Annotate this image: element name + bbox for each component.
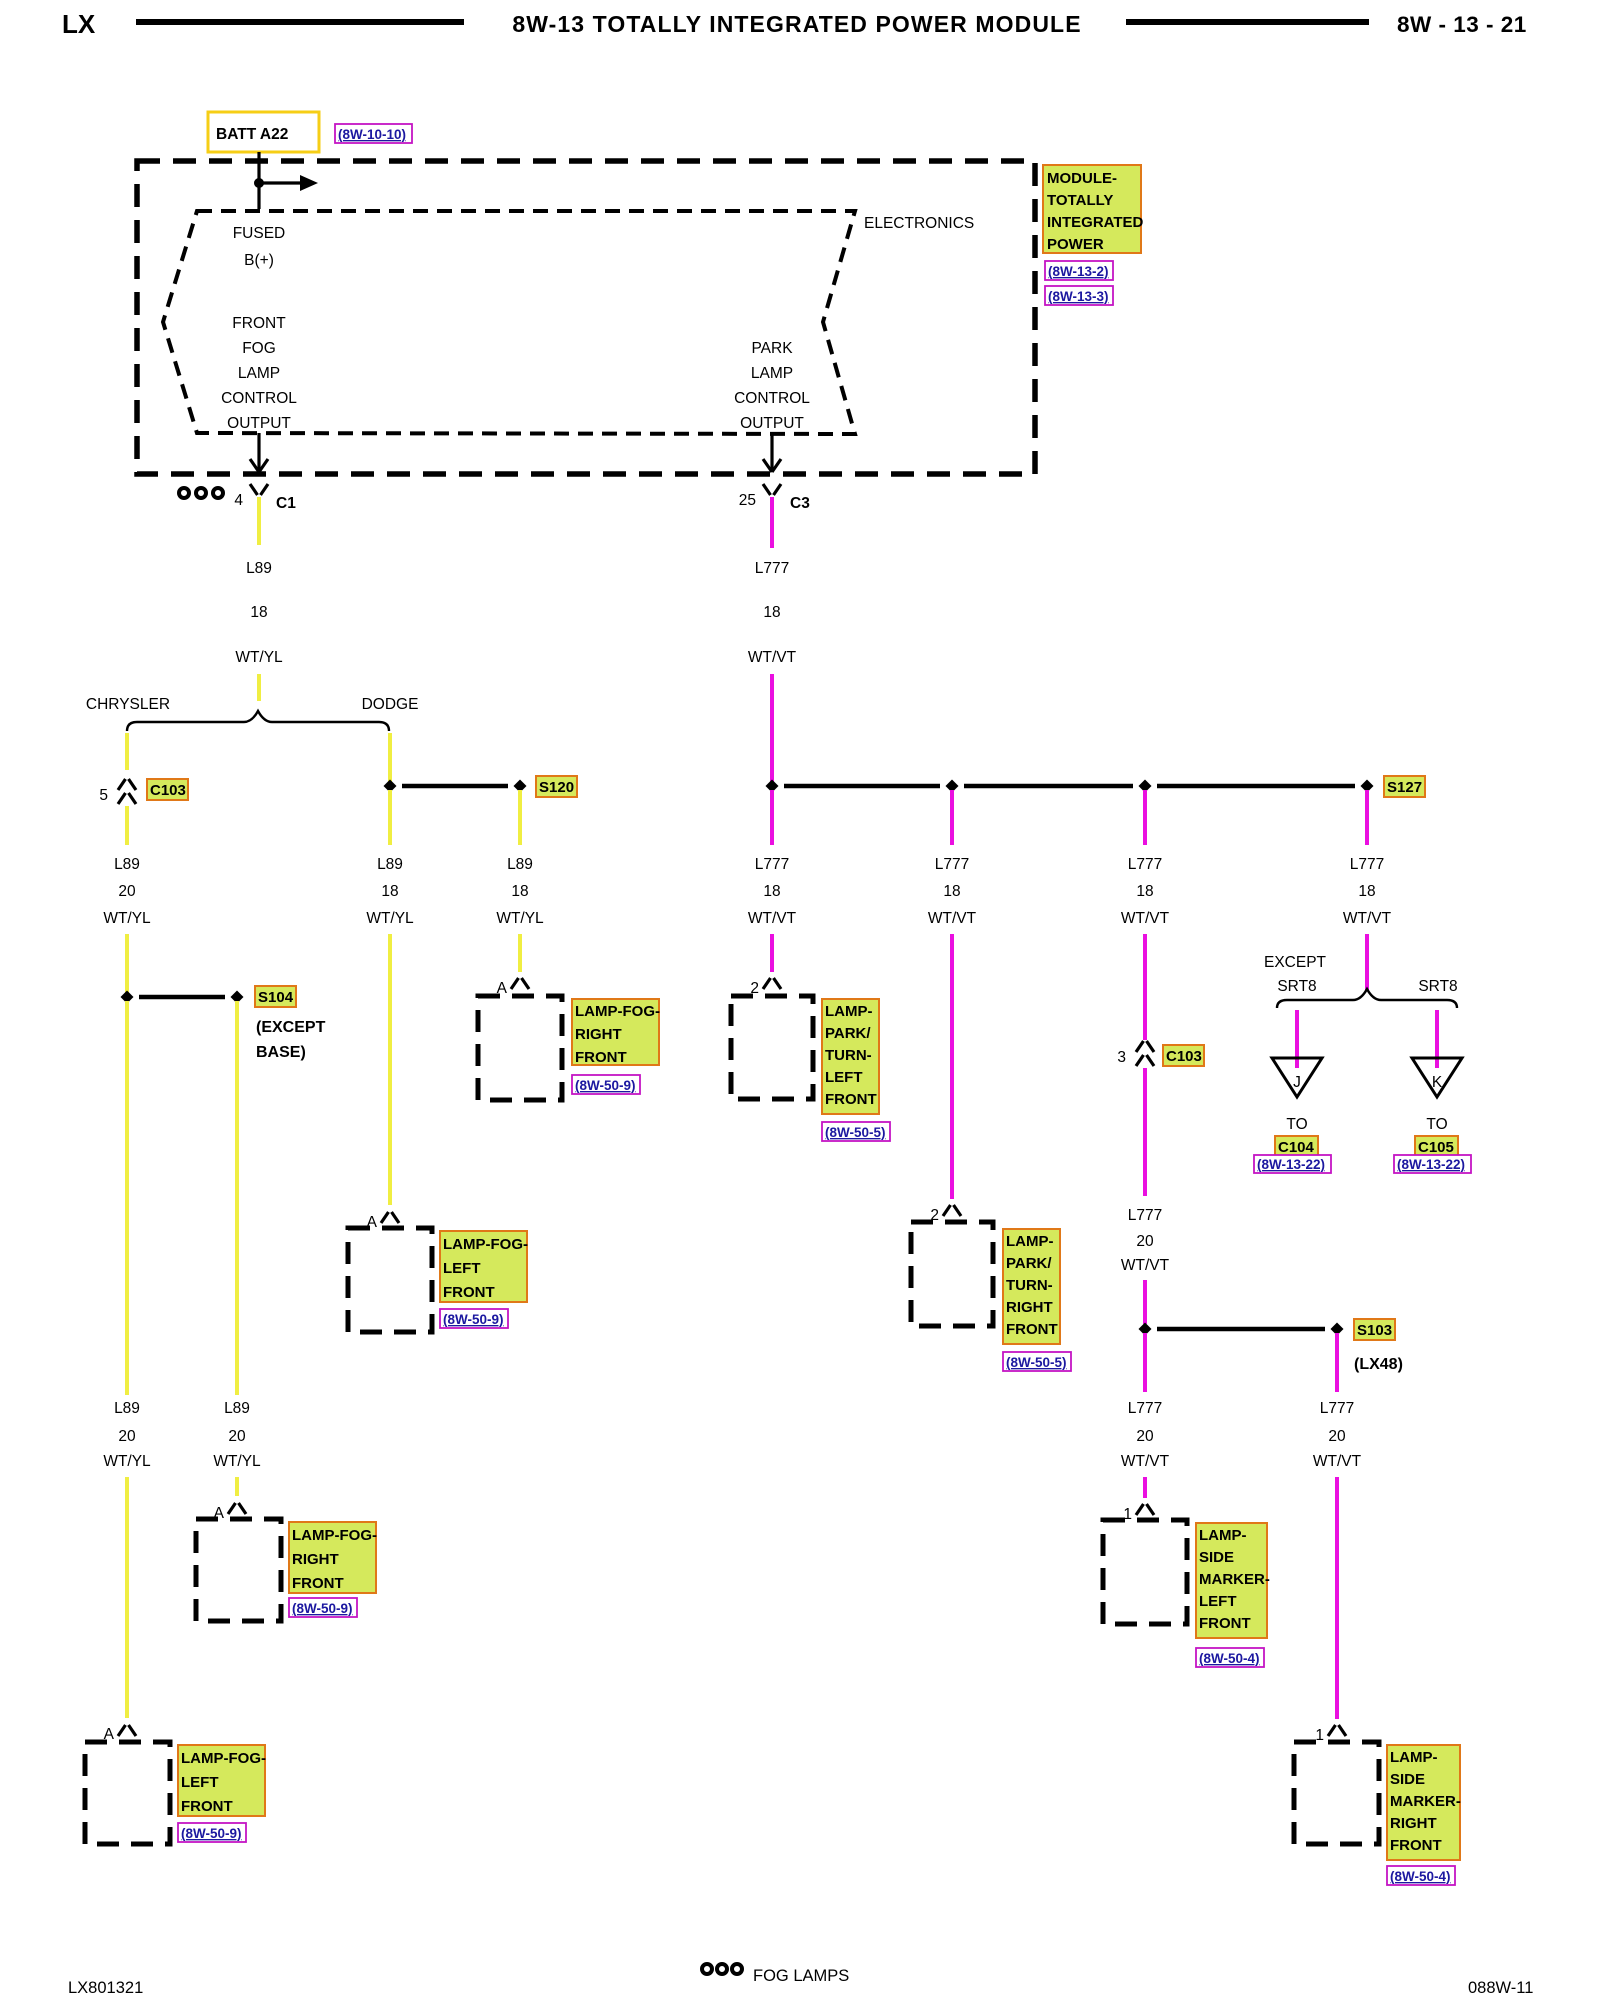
lamp LAMP-PARK/TURN-RIGHT FRONT — [911, 1222, 993, 1326]
svg-text:FOG: FOG — [242, 340, 276, 357]
link 8W-10-10 — [335, 124, 412, 143]
svg-text:LAMP: LAMP — [238, 365, 280, 382]
svg-text:WT/YL: WT/YL — [496, 910, 544, 927]
link 8W-50-9 — [289, 1598, 357, 1617]
arrow front fog output — [257, 433, 260, 470]
link 8W-13-3 — [1045, 286, 1113, 305]
svg-text:WT/VT: WT/VT — [928, 910, 977, 927]
svg-text:LAMP-FOG-: LAMP-FOG- — [181, 1750, 266, 1767]
svg-text:20: 20 — [118, 883, 136, 900]
svg-text:WT/VT: WT/VT — [1313, 1453, 1362, 1470]
lamp LAMP-SIDE MARKER-LEFT FRONT — [1103, 1520, 1187, 1624]
svg-text:SRT8: SRT8 — [1277, 978, 1316, 995]
wire col2 L777 18 WT/VT — [950, 790, 954, 845]
link 8W-50-4 — [1387, 1866, 1455, 1885]
svg-text:L89: L89 — [246, 560, 272, 577]
svg-text:BATT A22: BATT A22 — [216, 126, 288, 143]
svg-text:C3: C3 — [790, 495, 810, 512]
svg-text:5: 5 — [99, 787, 108, 804]
svg-text:FRONT: FRONT — [292, 1575, 344, 1592]
svg-text:TO: TO — [1426, 1116, 1447, 1133]
svg-text:MODULE-: MODULE- — [1047, 170, 1117, 187]
svg-text:WT/VT: WT/VT — [1121, 910, 1170, 927]
svg-text:LX801321: LX801321 — [68, 1979, 143, 1997]
svg-text:LAMP-FOG-: LAMP-FOG- — [443, 1236, 528, 1253]
svg-text:WT/YL: WT/YL — [366, 910, 414, 927]
svg-text:C104: C104 — [1278, 1139, 1315, 1156]
svg-text:OUTPUT: OUTPUT — [740, 415, 804, 432]
svg-text:20: 20 — [1136, 1233, 1154, 1250]
splice S127 — [784, 784, 940, 789]
svg-text:LEFT: LEFT — [825, 1069, 863, 1086]
svg-text:FOG LAMPS: FOG LAMPS — [753, 1967, 849, 1985]
svg-text:(8W-50-5): (8W-50-5) — [825, 1125, 886, 1140]
link 8W-13-22 — [1254, 1155, 1331, 1173]
svg-text:K: K — [1432, 1074, 1443, 1091]
svg-text:(8W-10-10): (8W-10-10) — [338, 127, 406, 142]
link 8W-50-9 — [572, 1075, 640, 1094]
header rule left — [136, 19, 464, 25]
svg-text:LAMP-: LAMP- — [1006, 1233, 1054, 1250]
header rule right — [1126, 19, 1369, 25]
connector chevron lamp fog left front — [118, 1725, 136, 1736]
connector chevron park/turn left — [763, 978, 781, 989]
svg-text:LAMP-: LAMP- — [1390, 1749, 1438, 1766]
svg-text:L777: L777 — [755, 560, 789, 577]
footer connector indicator — [702, 1964, 712, 1974]
svg-text:L777: L777 — [1128, 1400, 1162, 1417]
svg-text:088W-11: 088W-11 — [1468, 1979, 1533, 1997]
svg-text:WT/VT: WT/VT — [1343, 910, 1392, 927]
svg-text:20: 20 — [228, 1428, 246, 1445]
svg-text:FRONT: FRONT — [1006, 1321, 1058, 1338]
svg-text:PARK: PARK — [751, 340, 793, 357]
lamp LAMP-FOG-RIGHT FRONT (dodge) — [478, 996, 562, 1100]
svg-text:TOTALLY: TOTALLY — [1047, 192, 1113, 209]
svg-text:18: 18 — [943, 883, 960, 900]
svg-text:LEFT: LEFT — [443, 1260, 481, 1277]
svg-text:LAMP-: LAMP- — [1199, 1527, 1247, 1544]
svg-text:(8W-13-2): (8W-13-2) — [1048, 264, 1109, 279]
svg-text:FRONT: FRONT — [232, 315, 286, 332]
svg-text:LAMP-FOG-: LAMP-FOG- — [575, 1003, 660, 1020]
svg-text:SRT8: SRT8 — [1418, 978, 1457, 995]
svg-text:WT/YL: WT/YL — [213, 1453, 261, 1470]
svg-text:S127: S127 — [1387, 779, 1422, 796]
module label MODULE-TOTALLY INTEGRATED POWER — [1043, 165, 1141, 253]
svg-text:(8W-13-3): (8W-13-3) — [1048, 289, 1109, 304]
wire col3 L777 18 WT/VT — [1143, 790, 1147, 845]
svg-text:TURN-: TURN- — [825, 1047, 872, 1064]
lamp LAMP-FOG-LEFT FRONT (dodge) — [348, 1228, 432, 1332]
svg-text:B(+): B(+) — [244, 252, 274, 269]
svg-text:SIDE: SIDE — [1390, 1771, 1425, 1788]
svg-text:(8W-50-5): (8W-50-5) — [1006, 1355, 1067, 1370]
module inner connector cavity outline — [163, 211, 855, 434]
svg-text:18: 18 — [763, 604, 780, 621]
svg-text:20: 20 — [118, 1428, 136, 1445]
arrow park lamp output — [770, 433, 773, 470]
link 8W-13-22 — [1394, 1155, 1471, 1173]
svg-text:8W-13 TOTALLY INTEGRATED POWER: 8W-13 TOTALLY INTEGRATED POWER MODULE — [512, 11, 1081, 37]
wire L777 18 WT/VT from C3 — [770, 497, 774, 548]
wire col1 L777 18 WT/VT — [770, 790, 774, 845]
connector chevron lamp fog right front — [228, 1503, 246, 1514]
wire to K — [1435, 1010, 1439, 1068]
svg-text:INTEGRATED: INTEGRATED — [1047, 214, 1144, 231]
svg-text:LEFT: LEFT — [181, 1774, 219, 1791]
svg-text:18: 18 — [1358, 883, 1375, 900]
link 8W-50-5 — [1003, 1352, 1071, 1371]
lamp LAMP-FOG-LEFT FRONT (chrysler) — [85, 1742, 170, 1844]
svg-text:S103: S103 — [1357, 1322, 1392, 1339]
off-page connector K — [1412, 1058, 1462, 1097]
svg-text:L777: L777 — [1320, 1400, 1354, 1417]
svg-text:CONTROL: CONTROL — [221, 390, 297, 407]
svg-text:MARKER-: MARKER- — [1390, 1793, 1461, 1810]
wire col4 L777 18 WT/VT — [1365, 790, 1369, 845]
link 8W-50-9 — [440, 1309, 508, 1328]
svg-text:FRONT: FRONT — [443, 1284, 495, 1301]
svg-text:S120: S120 — [539, 779, 574, 796]
svg-text:RIGHT: RIGHT — [292, 1551, 339, 1568]
svg-text:4: 4 — [234, 492, 243, 509]
svg-text:FRONT: FRONT — [825, 1091, 877, 1108]
svg-text:FRONT: FRONT — [575, 1049, 627, 1066]
svg-text:PARK/: PARK/ — [1006, 1255, 1052, 1272]
module TIPM outer dashed box — [137, 161, 1035, 474]
svg-text:FRONT: FRONT — [181, 1798, 233, 1815]
svg-text:C103: C103 — [1166, 1048, 1202, 1065]
svg-text:LAMP-: LAMP- — [825, 1003, 873, 1020]
svg-text:LEFT: LEFT — [1199, 1593, 1237, 1610]
wire battery feed — [257, 152, 260, 209]
fuse box BATT A22 — [208, 112, 319, 152]
svg-text:WT/YL: WT/YL — [103, 910, 151, 927]
splice S120 — [402, 784, 508, 789]
svg-text:L89: L89 — [377, 856, 403, 873]
connector C1 — [250, 484, 268, 495]
svg-text:FUSED: FUSED — [233, 225, 286, 242]
svg-text:POWER: POWER — [1047, 236, 1104, 253]
splice S103 — [1157, 1327, 1325, 1332]
svg-text:25: 25 — [739, 492, 756, 509]
wire S104 left leg — [125, 1001, 129, 1395]
link 8W-50-4 — [1196, 1648, 1264, 1667]
wire S104 right leg — [235, 1001, 239, 1395]
svg-text:DODGE: DODGE — [362, 696, 419, 713]
svg-text:RIGHT: RIGHT — [575, 1026, 622, 1043]
wire S103 left leg L777 20 WT/VT — [1143, 1333, 1147, 1392]
svg-text:RIGHT: RIGHT — [1390, 1815, 1437, 1832]
wire S120 left leg L89 18 WT/YL — [388, 790, 392, 845]
svg-text:(8W-50-9): (8W-50-9) — [292, 1601, 353, 1616]
connector C1 in-line indicator — [179, 488, 189, 498]
svg-text:L777: L777 — [935, 856, 969, 873]
svg-text:18: 18 — [511, 883, 528, 900]
svg-text:TURN-: TURN- — [1006, 1277, 1053, 1294]
wire L89 18 WT/YL from C1 — [257, 497, 261, 545]
wire chrysler branch — [125, 733, 129, 770]
svg-text:(8W-50-9): (8W-50-9) — [443, 1312, 504, 1327]
svg-text:L89: L89 — [224, 1400, 250, 1417]
svg-text:CHRYSLER: CHRYSLER — [86, 696, 170, 713]
svg-text:(8W-13-22): (8W-13-22) — [1257, 1157, 1325, 1172]
svg-text:WT/VT: WT/VT — [1121, 1257, 1170, 1274]
off-page connector J — [1272, 1058, 1322, 1097]
svg-text:OUTPUT: OUTPUT — [227, 415, 291, 432]
svg-text:WT/VT: WT/VT — [748, 910, 797, 927]
lamp LAMP-FOG-RIGHT FRONT (chrysler) — [196, 1519, 281, 1621]
svg-text:WT/VT: WT/VT — [748, 649, 797, 666]
svg-text:18: 18 — [250, 604, 267, 621]
svg-text:LAMP: LAMP — [751, 365, 793, 382]
svg-text:ELECTRONICS: ELECTRONICS — [864, 215, 974, 232]
connector chevron lamp fog left front dodge — [381, 1212, 399, 1223]
svg-text:FRONT: FRONT — [1199, 1615, 1251, 1632]
svg-text:20: 20 — [1136, 1428, 1154, 1445]
svg-text:(8W-50-4): (8W-50-4) — [1199, 1651, 1260, 1666]
link 8W-13-2 — [1045, 261, 1113, 280]
svg-text:BASE): BASE) — [256, 1044, 306, 1061]
svg-text:RIGHT: RIGHT — [1006, 1299, 1053, 1316]
splice S104 — [139, 995, 225, 1000]
svg-text:(8W-50-9): (8W-50-9) — [181, 1826, 242, 1841]
link 8W-50-5 — [822, 1122, 890, 1141]
connector C103 left — [118, 779, 136, 804]
svg-text:LAMP-FOG-: LAMP-FOG- — [292, 1527, 377, 1544]
svg-text:CONTROL: CONTROL — [734, 390, 810, 407]
svg-text:WT/VT: WT/VT — [1121, 1453, 1170, 1470]
lamp LAMP-SIDE MARKER-RIGHT FRONT — [1294, 1742, 1379, 1844]
lamp LAMP-PARK/TURN-LEFT FRONT — [731, 996, 813, 1099]
svg-text:18: 18 — [763, 883, 780, 900]
svg-text:3: 3 — [1117, 1049, 1126, 1066]
svg-text:L777: L777 — [1128, 1207, 1162, 1224]
brace chrysler/dodge split — [127, 711, 389, 731]
svg-text:L777: L777 — [1128, 856, 1162, 873]
wire dodge branch — [388, 733, 392, 782]
brace srt8 split — [1277, 989, 1457, 1008]
svg-text:(8W-13-22): (8W-13-22) — [1397, 1157, 1465, 1172]
svg-text:L89: L89 — [507, 856, 533, 873]
connector chevron park/turn right — [943, 1205, 961, 1216]
svg-text:C1: C1 — [276, 495, 296, 512]
svg-text:FRONT: FRONT — [1390, 1837, 1442, 1854]
svg-text:WT/YL: WT/YL — [235, 649, 283, 666]
svg-text:MARKER-: MARKER- — [1199, 1571, 1270, 1588]
svg-text:L89: L89 — [114, 856, 140, 873]
svg-text:(8W-50-9): (8W-50-9) — [575, 1078, 636, 1093]
svg-text:PARK/: PARK/ — [825, 1025, 871, 1042]
svg-text:8W - 13 - 21: 8W - 13 - 21 — [1397, 12, 1527, 37]
svg-text:L777: L777 — [755, 856, 789, 873]
svg-text:18: 18 — [1136, 883, 1153, 900]
svg-text:LX: LX — [62, 9, 96, 39]
svg-text:S104: S104 — [258, 989, 294, 1006]
svg-text:(EXCEPT: (EXCEPT — [256, 1019, 326, 1036]
svg-text:C103: C103 — [150, 782, 186, 799]
svg-text:18: 18 — [381, 883, 398, 900]
svg-text:J: J — [1293, 1074, 1301, 1091]
svg-text:TO: TO — [1286, 1116, 1307, 1133]
junction dot — [254, 178, 264, 188]
svg-text:EXCEPT: EXCEPT — [1264, 954, 1327, 971]
wire S120 right leg L89 18 WT/YL — [518, 790, 522, 845]
wire L777 20 WT/VT to S103 — [1143, 1068, 1147, 1196]
wire S103 right leg L777 20 WT/VT — [1335, 1333, 1339, 1392]
svg-text:WT/YL: WT/YL — [103, 1453, 151, 1470]
svg-text:(8W-50-4): (8W-50-4) — [1390, 1869, 1451, 1884]
svg-text:SIDE: SIDE — [1199, 1549, 1234, 1566]
wire L89 20 WT/YL chrysler — [125, 806, 129, 845]
connector chevron side marker left — [1136, 1504, 1154, 1515]
svg-text:L89: L89 — [114, 1400, 140, 1417]
connector C3 — [763, 484, 781, 495]
svg-text:L777: L777 — [1350, 856, 1384, 873]
svg-text:C105: C105 — [1418, 1139, 1454, 1156]
wire to J — [1295, 1010, 1299, 1068]
connector C103 right — [1136, 1041, 1154, 1066]
svg-text:(LX48): (LX48) — [1354, 1356, 1403, 1373]
arrow battery feed to electronics — [259, 181, 301, 184]
connector chevron side marker right — [1328, 1725, 1346, 1736]
svg-text:1: 1 — [1315, 1727, 1324, 1744]
connector chevron lamp fog right front dodge — [511, 978, 529, 989]
link 8W-50-9 — [178, 1823, 246, 1842]
svg-text:20: 20 — [1328, 1428, 1346, 1445]
